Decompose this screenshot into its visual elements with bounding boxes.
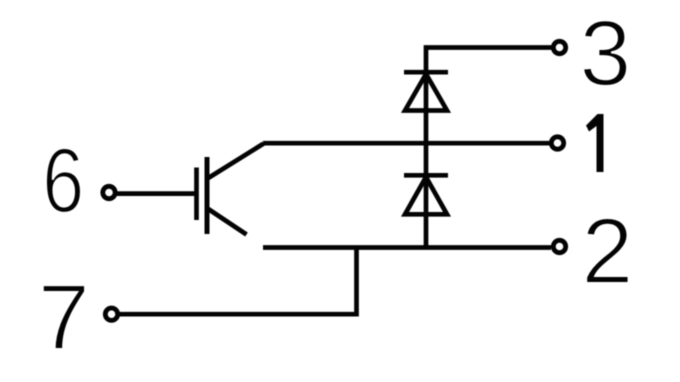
- wire: emitter node E to terminal 2: [263, 245, 551, 250]
- wire: gate to terminal 6: [116, 191, 197, 196]
- svg-text:6: 6: [42, 129, 84, 232]
- gate plate: [194, 168, 199, 221]
- wire: collector node C to terminal 1 (through diode junction): [263, 141, 550, 146]
- terminal pad 2: [553, 240, 565, 252]
- svg-text:3: 3: [580, 1, 632, 105]
- terminal pad 7: [105, 308, 117, 320]
- emitter diagonal: [208, 209, 247, 235]
- pin label 3: [580, 1, 632, 105]
- channel bar: [205, 157, 210, 234]
- wire: emitter junction down and left to terminal 7: [119, 248, 357, 315]
- diode D1 (upper, cathode up): [404, 72, 448, 143]
- pin label 6: [42, 129, 84, 232]
- terminal pad 6: [103, 186, 115, 198]
- diode D2 (lower, cathode up): [404, 143, 448, 247]
- wire from node K (diode top) to terminal 3: [426, 48, 552, 73]
- terminal pad 1: [551, 137, 563, 149]
- terminal pad 3: [553, 41, 565, 53]
- pin label 1: [586, 114, 604, 172]
- svg-text:7: 7: [38, 265, 90, 369]
- pin label 7: [38, 265, 90, 369]
- pin label 2: [582, 199, 634, 303]
- transistor Q1 (IGBT): [197, 144, 264, 235]
- collector diagonal: [208, 144, 264, 179]
- svg-text:2: 2: [582, 199, 634, 303]
